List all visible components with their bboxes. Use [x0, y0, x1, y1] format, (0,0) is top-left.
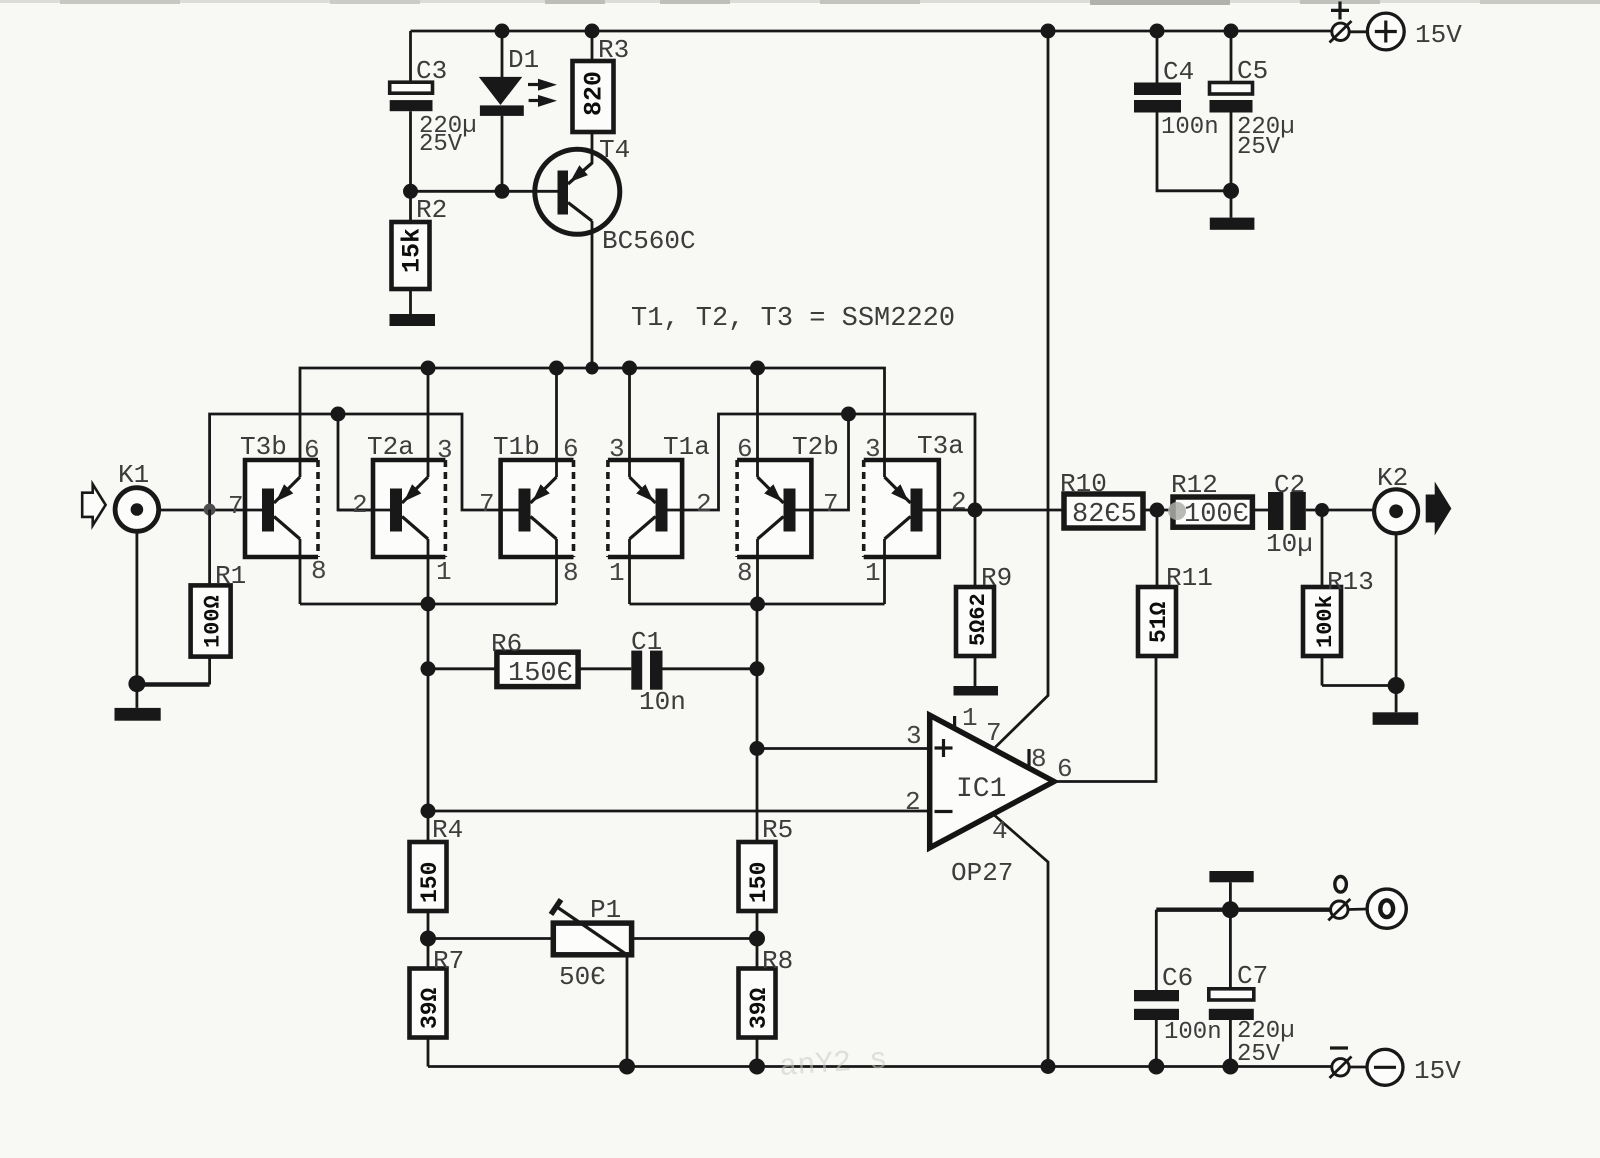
- svg-text:6: 6: [737, 434, 753, 464]
- svg-text:R3: R3: [598, 35, 629, 65]
- junction bus-right / T2b collector: [750, 597, 765, 612]
- svg-text:3: 3: [865, 434, 881, 464]
- junction inverting input: [421, 804, 436, 819]
- resistor R7: [410, 946, 465, 1067]
- svg-text:P1: P1: [590, 895, 621, 925]
- svg-text:10µ: 10µ: [1266, 529, 1313, 559]
- junction bottom rail / P1 wiper: [619, 1059, 635, 1075]
- svg-text:1: 1: [962, 703, 978, 733]
- wire IC1 non-inverting input: [757, 747, 930, 750]
- resistor R8: [739, 946, 794, 1067]
- wire -15V bottom rail: [428, 1065, 1332, 1068]
- svg-text:7: 7: [986, 718, 1002, 748]
- resistor R5: [739, 815, 794, 911]
- ground below R2: [390, 314, 436, 326]
- wire base rail right: [682, 414, 975, 510]
- svg-text:7: 7: [228, 491, 244, 521]
- svg-text:R10: R10: [1060, 469, 1107, 499]
- svg-text:R13: R13: [1327, 567, 1374, 597]
- svg-text:K2: K2: [1377, 463, 1408, 493]
- ground below K2: [1373, 712, 1419, 725]
- junction output / R9: [968, 503, 983, 518]
- svg-text:8: 8: [737, 558, 753, 588]
- resistor R6: [428, 629, 578, 689]
- svg-text:150: 150: [417, 862, 443, 903]
- svg-text:8: 8: [563, 558, 579, 588]
- svg-text:C5: C5: [1237, 56, 1268, 86]
- LED D1: [479, 31, 557, 191]
- capacitor C2: [1266, 470, 1373, 559]
- capacitor C7: [1209, 910, 1295, 1068]
- svg-text:7: 7: [823, 489, 839, 519]
- resistor R1: [137, 510, 246, 685]
- resistor R9: [956, 510, 1012, 686]
- svg-text:C7: C7: [1237, 961, 1268, 991]
- svg-text:100n: 100n: [1161, 114, 1219, 141]
- transistor T3b: [228, 432, 327, 604]
- svg-text:R7: R7: [433, 946, 464, 976]
- svg-text:1: 1: [609, 558, 625, 588]
- svg-text:C4: C4: [1163, 57, 1194, 87]
- resistor R3: [573, 31, 630, 164]
- svg-text:OP27: OP27: [951, 858, 1013, 888]
- wire right column: [756, 604, 759, 842]
- svg-text:R5: R5: [762, 815, 793, 845]
- wire collector bus left: [300, 603, 557, 606]
- svg-text:25V: 25V: [419, 131, 463, 158]
- wire left column: [427, 604, 430, 842]
- svg-text:R6: R6: [491, 629, 522, 659]
- svg-text:2: 2: [905, 787, 921, 817]
- svg-text:2: 2: [951, 487, 967, 517]
- svg-text:3: 3: [609, 434, 625, 464]
- svg-text:1: 1: [436, 557, 452, 587]
- scan artifact top edge: [0, 0, 1600, 5]
- capacitor C4: [1134, 31, 1231, 191]
- junction rail1 / T2a: [421, 361, 436, 376]
- terminal 0V: [1328, 877, 1406, 929]
- svg-text:39Ω: 39Ω: [417, 987, 443, 1029]
- svg-text:T4: T4: [599, 135, 630, 165]
- ground below R9: [954, 686, 999, 696]
- svg-text:C1: C1: [631, 627, 662, 657]
- junction R6 left: [421, 661, 436, 676]
- junction rail1 / T1a: [622, 361, 637, 376]
- svg-text:100k: 100k: [1313, 595, 1338, 648]
- junction rail2 / T2b base: [841, 407, 856, 422]
- svg-text:T1a: T1a: [663, 432, 710, 462]
- wire R4-R7: [427, 911, 430, 969]
- resistor R10: [1060, 469, 1173, 530]
- svg-text:C6: C6: [1162, 963, 1193, 993]
- terminal +15V: [1330, 2, 1463, 51]
- terminal -15V: [1330, 1048, 1462, 1086]
- junction bottom rail / C7: [1222, 1059, 1238, 1075]
- svg-text:82Є5: 82Є5: [1072, 500, 1137, 530]
- svg-text:100Ω: 100Ω: [201, 595, 226, 648]
- transistor T2b: [737, 368, 839, 604]
- svg-text:T2b: T2b: [792, 432, 839, 462]
- svg-text:T3a: T3a: [917, 431, 964, 461]
- wire collector bus right: [630, 603, 885, 606]
- wire emitter rail: [300, 368, 885, 477]
- svg-text:8: 8: [1031, 744, 1047, 774]
- svg-text:15V: 15V: [1415, 20, 1462, 50]
- svg-text:C2: C2: [1274, 470, 1305, 500]
- capacitor C3: [390, 31, 477, 191]
- wire 0V node: [1156, 882, 1330, 990]
- svg-text:R9: R9: [981, 563, 1012, 593]
- svg-text:10n: 10n: [639, 687, 686, 717]
- svg-text:150: 150: [746, 862, 772, 903]
- svg-text:100n: 100n: [1164, 1019, 1222, 1046]
- transistor T3a: [864, 431, 967, 604]
- junction non-inverting input: [750, 741, 765, 756]
- transistor T1a: [608, 368, 712, 604]
- svg-text:K1: K1: [118, 460, 149, 490]
- wire IC1 inverting input: [428, 810, 930, 813]
- svg-text:R1: R1: [215, 561, 246, 591]
- junction rail1 / T1b: [549, 361, 564, 376]
- svg-text:25V: 25V: [1237, 1041, 1281, 1068]
- svg-text:BC560C: BC560C: [602, 226, 696, 256]
- svg-text:R4: R4: [432, 815, 463, 845]
- svg-text:T1b: T1b: [493, 432, 540, 462]
- capacitor C6: [1134, 963, 1222, 1067]
- junction bottom rail / R8: [749, 1059, 765, 1075]
- svg-text:6: 6: [563, 434, 579, 464]
- transistor T4: [411, 135, 696, 368]
- junction top rail / D1: [495, 24, 510, 39]
- svg-text:T1, T2, T3 = SSM2220: T1, T2, T3 = SSM2220: [631, 304, 955, 334]
- junction C1 right: [750, 661, 765, 676]
- resistor R12: [1168, 470, 1268, 530]
- svg-text:39Ω: 39Ω: [746, 987, 772, 1029]
- wire +15V top rail: [411, 30, 1332, 33]
- svg-text:15V: 15V: [1414, 1056, 1461, 1086]
- junction C3 / R2 / T4 base: [403, 184, 418, 199]
- svg-text:2: 2: [352, 490, 368, 520]
- svg-text:820: 820: [580, 71, 609, 116]
- svg-text:2: 2: [696, 489, 712, 519]
- junction rail2 / T2a base: [331, 407, 346, 422]
- svg-text:IC1: IC1: [956, 774, 1006, 805]
- junction rail1 / T2b: [750, 361, 765, 376]
- junction top rail / R3: [585, 24, 600, 39]
- junction top rail / C4: [1150, 24, 1165, 39]
- connector K2: [1374, 463, 1451, 712]
- resistor R4: [410, 815, 464, 911]
- svg-text:25V: 25V: [1237, 134, 1281, 161]
- svg-text:4: 4: [992, 816, 1008, 846]
- resistor R11: [1138, 510, 1213, 656]
- svg-text:7: 7: [479, 489, 495, 519]
- output node wire: [923, 509, 1065, 512]
- svg-text:15k: 15k: [398, 228, 427, 273]
- svg-text:6: 6: [1057, 754, 1073, 784]
- svg-text:150Є: 150Є: [508, 659, 573, 689]
- wire base rail left: [210, 414, 501, 510]
- svg-text:6: 6: [304, 435, 320, 465]
- wire R5-R8: [756, 911, 759, 969]
- transistor T2a: [338, 368, 453, 604]
- junction top rail / IC1 supply: [1041, 24, 1056, 39]
- junction C4 / C5: [1223, 183, 1239, 199]
- connector K1: [82, 460, 262, 708]
- svg-text:5Ω62: 5Ω62: [966, 593, 991, 646]
- junction bottom rail / IC1 pin4: [1041, 1059, 1056, 1074]
- junction rail1 / T4: [586, 362, 599, 375]
- svg-text:R2: R2: [416, 195, 447, 225]
- junction 0V / C7: [1222, 901, 1239, 918]
- ground below C5: [1210, 218, 1255, 230]
- svg-text:100Є: 100Є: [1184, 500, 1249, 530]
- svg-text:R11: R11: [1166, 563, 1213, 593]
- svg-text:R12: R12: [1171, 470, 1218, 500]
- svg-text:T2a: T2a: [367, 432, 414, 462]
- junction top rail / C5: [1224, 24, 1239, 39]
- svg-text:51Ω: 51Ω: [1146, 601, 1172, 643]
- junction R5 / P1 right: [749, 931, 765, 947]
- svg-text:D1: D1: [508, 45, 539, 75]
- capacitor C1: [578, 627, 757, 717]
- svg-text:8: 8: [311, 556, 327, 586]
- resistor R13: [1303, 510, 1396, 686]
- junction C2 / R13: [1315, 503, 1329, 517]
- svg-text:C3: C3: [416, 56, 447, 86]
- junction R10 / R12 / R11: [1150, 503, 1165, 518]
- svg-text:3: 3: [906, 721, 922, 751]
- junction D1 / T4 base wire: [495, 184, 510, 199]
- transistor T1b: [479, 368, 579, 604]
- junction bus-left / T2a collector: [421, 597, 436, 612]
- junction R4 / P1 left: [420, 931, 436, 947]
- svg-text:R8: R8: [762, 946, 793, 976]
- svg-text:50Є: 50Є: [559, 962, 606, 992]
- junction bottom rail / C6: [1148, 1059, 1164, 1075]
- svg-text:3: 3: [437, 435, 453, 465]
- ground above C6/C7: [1209, 871, 1253, 882]
- ground below K1: [115, 708, 161, 721]
- svg-text:1: 1: [865, 558, 881, 588]
- resistor R2: [392, 191, 448, 314]
- potentiometer P1: [428, 895, 757, 1067]
- op-amp IC1: [905, 31, 1156, 1067]
- capacitor C5: [1210, 31, 1295, 218]
- svg-text:T3b: T3b: [240, 432, 287, 462]
